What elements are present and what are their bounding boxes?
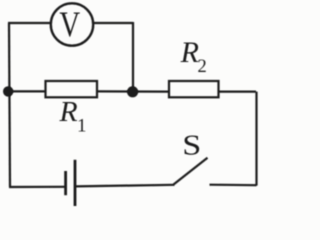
battery long plate (+) (74, 160, 77, 206)
switch S blade (174, 158, 208, 185)
node B junction dot (127, 86, 138, 97)
wire bottom-right to switch (210, 184, 257, 187)
svg-text:S: S (182, 129, 201, 160)
svg-text:V: V (59, 4, 80, 44)
resistor R1 body (46, 81, 98, 97)
wire battery to bottom-left corner (9, 186, 65, 188)
resistor R2 body (169, 81, 219, 97)
wire R1 to node B (97, 90, 169, 92)
svg-text:R: R (180, 36, 199, 69)
wire switch to battery (76, 185, 175, 187)
svg-text:R: R (58, 97, 78, 128)
svg-text:2: 2 (198, 57, 207, 77)
voltmeter U/V circle (51, 3, 93, 45)
battery short plate (-) (64, 171, 67, 195)
svg-text:1: 1 (77, 116, 87, 137)
wire voltmeter right to corner (94, 22, 133, 24)
wire voltmeter branch vertical down to node B (132, 22, 134, 90)
wire top-left horizontal to voltmeter (8, 22, 51, 24)
wire R2 to top-right corner (219, 90, 257, 92)
wire top-left vertical (left branch) (9, 23, 10, 187)
wire middle left: node A to R1 (8, 90, 46, 92)
wire right vertical (255, 92, 257, 186)
node A junction dot (3, 86, 13, 96)
